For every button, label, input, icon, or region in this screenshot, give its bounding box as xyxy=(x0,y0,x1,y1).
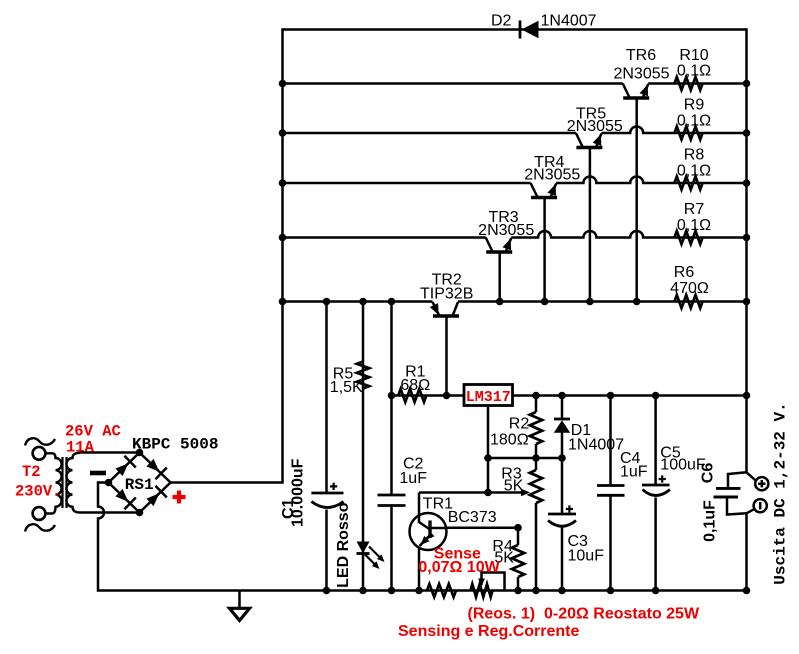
bridge plus sign (red) xyxy=(173,491,186,504)
op-amp U1 LM317 regulator box xyxy=(464,385,513,406)
wire row 2 right (TR5 emitter, hop over TR6 base) xyxy=(601,127,746,134)
transformer T2 primary terminal top xyxy=(33,447,46,460)
svg-text:230V.: 230V. xyxy=(15,483,62,501)
wire TR2 base down to LM317 input node xyxy=(445,316,448,396)
LED Rosso indicator xyxy=(357,542,370,554)
diode D2 1N4007 (reverse protection) xyxy=(519,21,522,39)
transistor TR3 2N3055 xyxy=(486,250,512,254)
wire bottom ground rail xyxy=(98,589,747,592)
wire row 1 right (TR6 emitter to R10 to right rail) xyxy=(648,82,746,85)
bridge minus sign xyxy=(90,471,106,476)
resistor R4 5K xyxy=(512,545,524,577)
svg-text:11A: 11A xyxy=(66,439,95,457)
resistor R10 0,1 ohm xyxy=(675,77,703,90)
wire top rail (D2 row) xyxy=(283,28,747,31)
resistor R6 470 ohm xyxy=(675,295,703,308)
transistor TR2 TIP32B (PNP driver) xyxy=(433,314,459,318)
output terminal + (Uscita positive) xyxy=(755,477,768,490)
junction dot TR1 base / R4 top xyxy=(514,524,522,532)
wire C5 branch xyxy=(654,396,657,486)
junction dots ADJ node row xyxy=(484,454,492,462)
arrow R3 wiper xyxy=(521,489,530,497)
svg-text:R6: R6 xyxy=(674,264,695,281)
wire TR1 base row to R4 top xyxy=(446,526,518,529)
resistor R9 0,1 ohm xyxy=(675,127,703,140)
svg-text:R8: R8 xyxy=(684,147,705,164)
resistor sense 0,07 ohm on ground rail xyxy=(427,584,456,597)
svg-text:Uscita DC 1,2-32 V.: Uscita DC 1,2-32 V. xyxy=(772,402,790,584)
wire row 5 left (unregulated V+ to TR2 emitter) xyxy=(283,300,433,303)
svg-text:KBPC 5008: KBPC 5008 xyxy=(132,436,218,454)
diode D1 1N4007 xyxy=(554,418,570,421)
resistor R8 0,1 ohm xyxy=(675,177,703,190)
transistor TR4 2N3055 xyxy=(531,196,557,200)
wire right rail (output +) xyxy=(745,28,748,472)
svg-text:0,07Ω 10W: 0,07Ω 10W xyxy=(418,559,500,576)
svg-text:10.000uF: 10.000uF xyxy=(290,458,307,527)
wire row 4 right (TR3 emitter, hops over TR4/TR5/TR6 bases) xyxy=(511,231,746,237)
svg-text:Sensing e Reg.Corrente: Sensing e Reg.Corrente xyxy=(398,623,579,640)
transistor TR1 BC373 (darlington current limiter) xyxy=(410,513,447,550)
wire TR5 base down to driver rail xyxy=(589,148,592,302)
wire bridge - output down to ground rail (hops AC2 wire) xyxy=(98,483,109,592)
svg-text:0,1uF: 0,1uF xyxy=(702,500,719,542)
wire row 1 left (TR6 collector) xyxy=(283,82,623,85)
svg-text:0,1Ω: 0,1Ω xyxy=(677,162,711,179)
wire R3 wiper row (TR1 collector to wiper arrow) xyxy=(419,491,524,494)
wire C4 branch xyxy=(609,396,612,486)
wire D1 / C3 branch xyxy=(561,396,564,420)
transformer T2 core xyxy=(61,457,63,508)
wire row 5 right (TR2 collector / driver rail to R6) xyxy=(458,300,747,303)
svg-text:68Ω: 68Ω xyxy=(400,377,430,394)
junction dots driver rail (transistor bases, branch taps) xyxy=(323,298,331,306)
resistor R2 180 ohm xyxy=(530,412,542,444)
wire C2 / R1 branch vertical xyxy=(390,302,393,496)
wire LM317 output row xyxy=(513,394,747,397)
resistor rheostat (Reos.1) 0-20 ohm xyxy=(471,584,493,597)
wire TR1 emitter to ground rail xyxy=(418,549,421,591)
resistor R5 1,5K xyxy=(357,362,369,389)
svg-text:1,5K: 1,5K xyxy=(330,379,363,396)
svg-text:10uF: 10uF xyxy=(568,548,605,565)
capacitor C2 1uF xyxy=(378,494,406,497)
wire R2 branch xyxy=(535,396,538,413)
resistor R3 5K potentiometer xyxy=(530,470,542,503)
svg-text:0,1Ω: 0,1Ω xyxy=(677,63,711,80)
wire secondary bottom to bridge AC2 xyxy=(80,511,140,514)
svg-text:1N4007: 1N4007 xyxy=(568,437,624,454)
svg-text:1uF: 1uF xyxy=(399,470,427,487)
wire TR3 base down to driver rail xyxy=(498,252,501,302)
svg-text:1N4007: 1N4007 xyxy=(541,12,597,29)
arrow rheostat wiper xyxy=(478,579,485,587)
junction dots bridge vertices xyxy=(136,449,144,457)
svg-text:RS1: RS1 xyxy=(125,476,154,494)
wire TR4 base down to driver rail xyxy=(543,198,546,302)
wire row 3 right (TR4 emitter, hops over TR5/TR6 bases) xyxy=(556,177,746,184)
wire R3 branch to ground rail xyxy=(535,458,538,470)
output terminal - (Uscita negative) xyxy=(754,499,767,512)
svg-text:2N3055: 2N3055 xyxy=(567,118,623,135)
wire row 3 left (TR4 collector) xyxy=(283,182,531,185)
capacitor C6 0,1uF across output xyxy=(716,487,741,490)
AC squiggle top xyxy=(25,438,55,445)
svg-text:2N3055: 2N3055 xyxy=(524,167,580,184)
svg-text:0,1Ω: 0,1Ω xyxy=(677,112,711,129)
junction dots ground rail xyxy=(323,587,331,595)
svg-text:TIP32B: TIP32B xyxy=(420,285,473,302)
svg-text:D2: D2 xyxy=(491,12,512,29)
capacitor C1 10.000uF (main filter) xyxy=(311,492,343,495)
resistor R1 68 ohm xyxy=(398,389,426,402)
wire LM317 input row xyxy=(392,394,465,397)
transformer T2 primary terminal bottom xyxy=(33,507,46,520)
wire bridge + output to left rail xyxy=(171,481,284,484)
svg-text:R7: R7 xyxy=(684,201,705,218)
transformer T2 secondary winding xyxy=(66,453,80,513)
wire left rail (rectifier + to collector rows) xyxy=(281,28,284,482)
transistor TR6 2N3055 xyxy=(623,96,649,100)
wire secondary top to bridge AC1 xyxy=(80,451,140,454)
svg-text:1uF: 1uF xyxy=(620,463,648,480)
wire R4 branch xyxy=(517,528,520,545)
capacitor C3 10uF xyxy=(548,513,576,516)
wire ADJ node row (R2 bottom / D1 anode) xyxy=(488,457,562,460)
svg-text:2N3055: 2N3055 xyxy=(613,65,669,82)
wire R5 / LED branch vertical xyxy=(362,302,365,591)
bridge rectifier RS1 KBPC 5008 xyxy=(109,453,140,483)
svg-text:LM317: LM317 xyxy=(466,389,511,406)
svg-text:(Reos. 1) 0-20Ω Reostato 25W: (Reos. 1) 0-20Ω Reostato 25W xyxy=(468,606,700,623)
junction dots LM317 row xyxy=(388,392,396,400)
wire rheostat wiper L-link xyxy=(482,573,505,591)
wire TR1 collector up to wiper row xyxy=(418,493,421,515)
transformer T2 primary winding xyxy=(45,453,61,513)
svg-text:2N3055: 2N3055 xyxy=(478,222,534,239)
svg-text:5K: 5K xyxy=(504,477,524,494)
svg-text:470Ω: 470Ω xyxy=(670,280,709,297)
wire row 2 left (TR5 collector) xyxy=(283,132,576,135)
wire LM317 ADJ pin down xyxy=(487,406,490,493)
transistor TR5 2N3055 xyxy=(576,146,602,150)
junction dot wiper row xyxy=(484,489,492,497)
wire row 4 left (TR3 collector) xyxy=(283,236,486,239)
AC squiggle bottom xyxy=(25,524,55,531)
svg-text:180Ω: 180Ω xyxy=(490,431,529,448)
junction dots right rail xyxy=(743,80,751,88)
junction dots left rail xyxy=(279,80,287,88)
svg-text:C6: C6 xyxy=(700,463,717,484)
svg-text:R2: R2 xyxy=(509,415,530,432)
svg-text:R10: R10 xyxy=(679,47,708,64)
capacitor C4 1uF xyxy=(597,484,625,487)
wire TR6 base down to driver rail xyxy=(635,98,638,302)
wire right rail lower segment (output - down to ground rail) xyxy=(745,513,748,591)
ground symbol xyxy=(238,591,241,610)
svg-text:BC373: BC373 xyxy=(448,509,497,526)
svg-text:LED Rosso: LED Rosso xyxy=(335,502,352,588)
svg-text:T2: T2 xyxy=(22,463,41,481)
svg-text:0,1Ω: 0,1Ω xyxy=(677,217,711,234)
svg-text:R9: R9 xyxy=(684,97,705,114)
capacitor C5 100uF xyxy=(642,484,670,487)
wire C1 branch vertical xyxy=(325,302,328,494)
svg-text:TR6: TR6 xyxy=(626,47,656,64)
resistor R7 0,1 ohm xyxy=(675,231,703,244)
